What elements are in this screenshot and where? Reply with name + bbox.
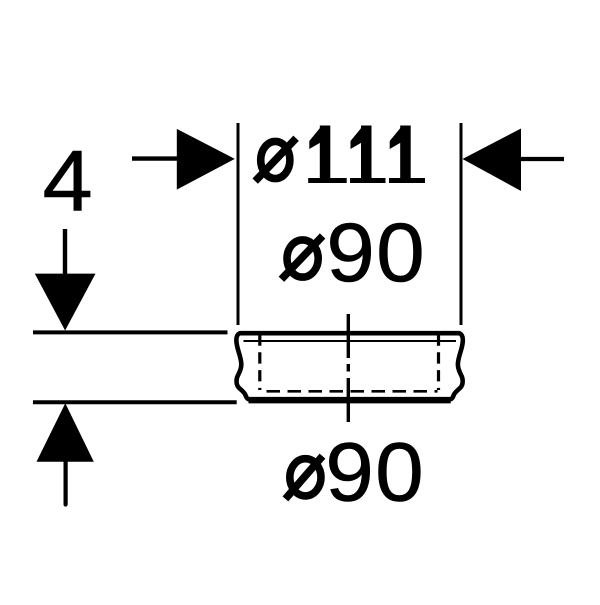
arrow pointing left (dim ø111 right side) [463,129,565,192]
hidden line left (dashed vertical) [258,335,261,391]
diameter symbol of bottom ø90 [285,456,322,499]
digit 1 (first of 111) [308,126,347,184]
diameter symbol of middle ø90 [281,236,322,279]
hidden line right (dashed vertical) [437,335,440,391]
hidden line bottom (dashed horizontal) [267,390,438,393]
extension line left (dim ø111) [237,123,240,325]
sleeve bottom edge thick line [249,399,451,403]
dimension text 4 [43,132,93,229]
svg-text:90: 90 [326,206,426,300]
dimension text 90 (bottom) [325,425,425,519]
dimension line top (dim 4) [33,330,228,334]
svg-text:4: 4 [43,132,93,229]
arrow down (dim 4 upper) [35,229,96,331]
digit 1 (second of 111) [350,126,386,184]
svg-text:90: 90 [325,425,425,519]
dimension text 90 (middle) [326,206,426,300]
sleeve inner top edge (thin line) [244,340,457,342]
sleeve part: outer profile [236,333,462,399]
centerline (vertical dash-dot) [347,314,350,424]
digit 1 (third of 111) [389,126,425,184]
extension line right (dim ø111) [460,123,463,325]
dimension line bottom (dim 4) [33,400,237,404]
diameter symbol of ø111 [255,138,296,181]
arrow pointing right (dim ø111 left side) [132,129,235,190]
arrow up (dim 4 lower) [37,403,94,504]
